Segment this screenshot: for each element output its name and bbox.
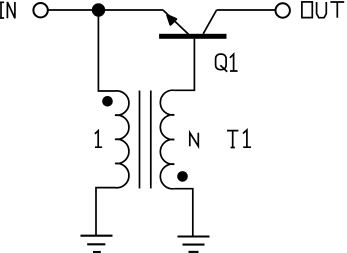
junction dot node A: [92, 3, 105, 16]
label N secondary: [190, 133, 199, 147]
transistor Q1 base bar: [159, 34, 226, 39]
transistor Q1 emitter: [163, 10, 189, 34]
transistor Q1 emitter arrow: [167, 15, 176, 24]
transistor Q1 collector: [203, 10, 216, 34]
label OUT: [302, 2, 344, 18]
transformer T1 core: [140, 91, 151, 189]
transformer T1 primary winding: [115, 91, 129, 188]
wire secondary to ground: [174, 189, 193, 236]
label Q1: [216, 54, 238, 72]
label 1 primary: [95, 131, 102, 148]
ground left: [81, 236, 113, 252]
terminal IN: [33, 3, 47, 17]
wire primary to ground: [96, 188, 115, 236]
wire base to right winding: [174, 39, 194, 91]
wire collector to OUT: [217, 9, 276, 11]
wire IN to emitter: [48, 9, 163, 11]
polarity dot primary: [102, 96, 113, 107]
label IN: [0, 2, 15, 18]
transformer T1 secondary winding: [160, 90, 174, 189]
ground right: [178, 237, 210, 252]
label T1: [227, 130, 251, 148]
terminal OUT: [276, 3, 290, 17]
wire junction to primary: [98, 10, 115, 91]
polarity dot secondary: [177, 171, 188, 182]
